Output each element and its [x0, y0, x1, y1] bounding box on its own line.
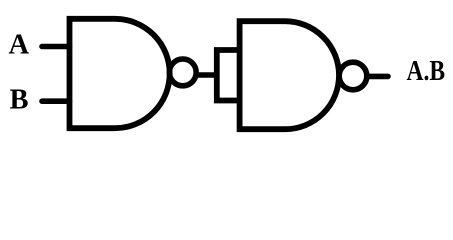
svg-text:A: A — [9, 30, 30, 61]
NAND gate U1 — [70, 19, 170, 128]
joiner bar with stubs to U2 inputs — [217, 50, 240, 101]
wire input B — [42, 98, 70, 104]
U2 output bubble — [339, 62, 367, 90]
output wire — [367, 74, 388, 80]
U1 output bubble — [169, 59, 196, 86]
svg-text:B: B — [10, 85, 29, 116]
wire U1 bubble to joiner — [197, 72, 217, 78]
wire input A — [42, 44, 70, 50]
NAND gate U2 — [240, 21, 339, 129]
svg-text:A.B: A.B — [407, 56, 446, 87]
